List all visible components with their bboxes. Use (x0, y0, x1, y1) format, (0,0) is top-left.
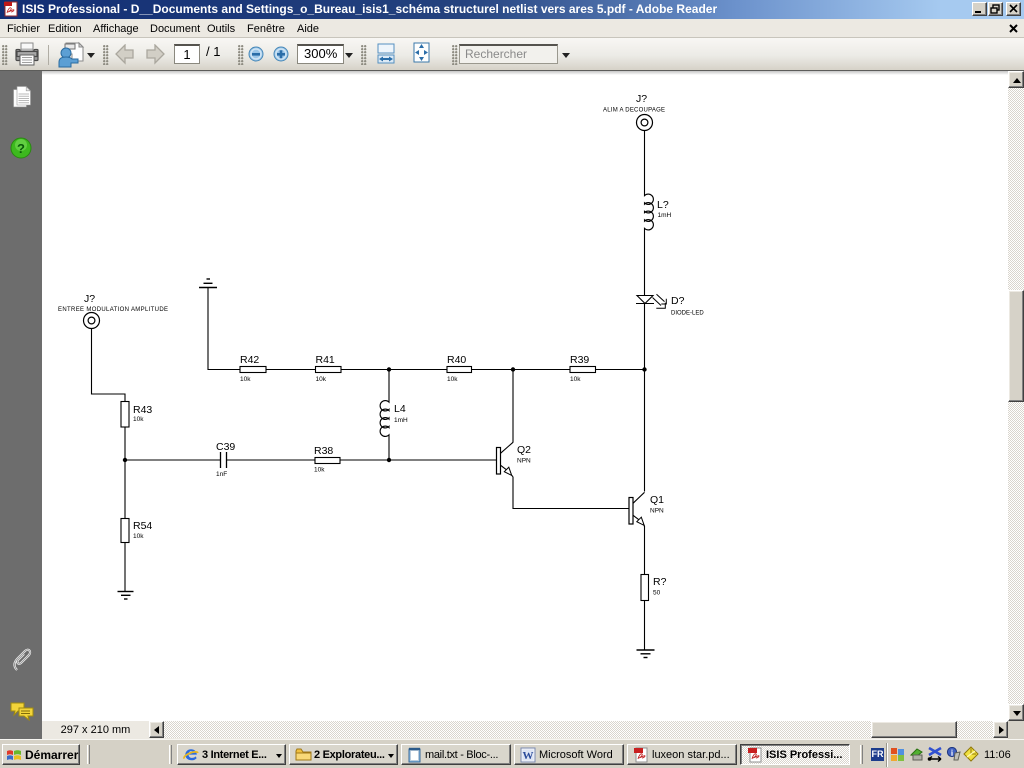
share/email icon (57, 41, 86, 68)
taskbar (0, 739, 1024, 768)
svg-text:R38: R38 (314, 445, 333, 457)
svg-text:D?: D? (671, 295, 685, 307)
svg-text:10k: 10k (570, 376, 581, 383)
printer icon (15, 42, 39, 66)
svg-text:ENTREE MODULATION AMPLITUDE: ENTREE MODULATION AMPLITUDE (58, 307, 168, 313)
wire L4 bottom (388, 436, 390, 461)
help green ? (10, 137, 32, 160)
svg-text:10k: 10k (240, 376, 251, 383)
resistor R41 10k (316, 354, 342, 383)
ground Q1/R? (637, 650, 655, 658)
title bar (0, 0, 1024, 19)
menu bar (0, 19, 1024, 38)
svg-text:J?: J? (84, 293, 95, 305)
inductor L4 1mH (380, 401, 408, 437)
wire R54 to ground (124, 543, 126, 592)
wire rail down to Q1 collector (644, 370, 646, 492)
wire L4 top (388, 370, 390, 402)
task buttons (177, 744, 286, 765)
wire node to C39 (125, 459, 221, 461)
resistor R54 10k (121, 519, 152, 543)
inductor L? 1mH (645, 194, 672, 230)
svg-text:L?: L? (657, 199, 669, 211)
wire J2 to R43 (92, 329, 126, 402)
pages icon (13, 86, 31, 108)
wire R38 to Q2 base (340, 459, 497, 461)
toolbar (0, 38, 1024, 71)
svg-text:Q1: Q1 (650, 494, 664, 506)
svg-text:NPN: NPN (517, 458, 531, 465)
svg-text:R41: R41 (316, 354, 335, 366)
svg-text:?: ? (17, 141, 25, 156)
svg-text:10k: 10k (316, 376, 327, 383)
wire Q2 emitter to Q1 base (513, 477, 629, 509)
page number box (174, 44, 200, 64)
transistor Q2 NPN (497, 442, 532, 477)
transistor Q1 NPN (629, 492, 664, 527)
wire Q1 emitter to R? (644, 526, 646, 575)
ground (inverted) top-left (199, 279, 217, 288)
svg-text:W: W (523, 750, 534, 762)
svg-text:R42: R42 (240, 354, 259, 366)
svg-text:NPN: NPN (650, 508, 664, 515)
resistor R43 10k (121, 402, 152, 428)
svg-text:10k: 10k (447, 376, 458, 383)
zoom in button (273, 46, 289, 62)
svg-text:10k: 10k (314, 467, 325, 474)
svg-text:R39: R39 (570, 354, 589, 366)
svg-text:R54: R54 (133, 520, 152, 532)
svg-text:J?: J? (636, 93, 647, 105)
tray (871, 748, 884, 761)
svg-text:R40: R40 (447, 354, 466, 366)
svg-text:10k: 10k (133, 533, 144, 540)
svg-text:C39: C39 (216, 441, 235, 453)
node junction Q2 collector (511, 367, 515, 371)
wire R43 to node (124, 427, 126, 460)
resistor R42 10k (240, 354, 266, 383)
svg-text:1mH: 1mH (394, 417, 408, 424)
zoom out button (248, 46, 264, 62)
svg-text:Q2: Q2 (517, 444, 531, 456)
wire R54 top (124, 460, 126, 519)
bottom row: status + horizontal scrollbar (0, 721, 1024, 739)
svg-text:ALIM A DECOUPAGE: ALIM A DECOUPAGE (603, 108, 665, 114)
wire J1 to L1 (644, 131, 646, 196)
svg-text:L4: L4 (394, 403, 406, 415)
fit page icon (413, 42, 430, 63)
node junction R43/R54/C39 (123, 458, 127, 462)
wire D? to rail (644, 304, 646, 371)
svg-text:R?: R? (653, 576, 667, 588)
forward arrow (disabled) (145, 44, 165, 65)
capacitor C39 1nF (216, 441, 235, 478)
comments icon (10, 701, 35, 721)
wire R42 to R41 (266, 369, 316, 371)
wire R41 to R40 (341, 369, 447, 371)
resistor R39 10k (570, 354, 596, 383)
node junction L4 top (387, 367, 391, 371)
node junction L4 bottom (387, 458, 391, 462)
zoom combo (297, 44, 344, 64)
wire C39 to R38 (227, 459, 316, 461)
white page (42, 71, 1008, 721)
paperclip (12, 648, 33, 673)
wire ground stem to R42 (208, 288, 240, 370)
wire L? to D? (644, 229, 646, 295)
fit width icon (377, 43, 395, 64)
svg-text:1nF: 1nF (216, 471, 227, 478)
wire R39 to rail (596, 369, 645, 371)
svg-text:R43: R43 (133, 404, 152, 416)
connector J1 ALIM A DECOUPAGE (603, 93, 665, 131)
svg-text:DIODE-LED: DIODE-LED (671, 311, 704, 317)
resistor R40 10k (447, 354, 472, 383)
resistor R? 50 (641, 575, 667, 601)
wire R40 to R39 (472, 369, 571, 371)
node junction rail/R39 (642, 367, 646, 371)
diode D? DIODE-LED (636, 294, 704, 316)
connector J2 ENTREE MODULATION AMPLITUDE (58, 293, 168, 329)
wire R? to ground (644, 601, 646, 651)
svg-text:50: 50 (653, 590, 661, 597)
wire Q2 collector to rail row (512, 370, 514, 443)
vertical scrollbar (1008, 71, 1024, 721)
back arrow (disabled) (115, 44, 135, 65)
svg-text:1mH: 1mH (658, 212, 672, 219)
search box (459, 44, 558, 64)
svg-text:10k: 10k (133, 416, 144, 423)
Start button (2, 744, 80, 765)
ground R54 (118, 592, 134, 600)
resistor R38 10k (314, 445, 340, 474)
